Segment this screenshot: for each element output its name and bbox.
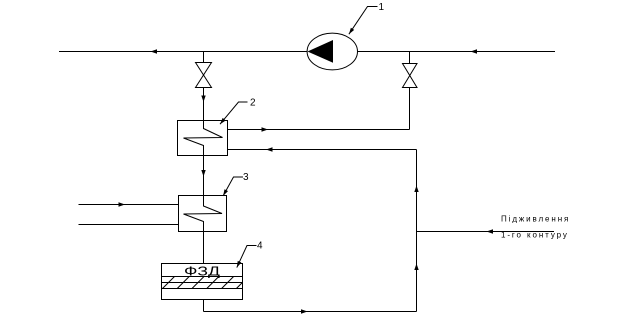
svg-text:1: 1: [379, 2, 385, 13]
svg-text:Підживлення: Підживлення: [501, 215, 570, 224]
svg-text:ФЗД: ФЗД: [184, 264, 220, 279]
svg-text:4: 4: [257, 241, 263, 252]
svg-text:2: 2: [250, 98, 256, 109]
svg-text:3: 3: [243, 172, 249, 183]
svg-text:1-го контуру: 1-го контуру: [501, 230, 569, 239]
